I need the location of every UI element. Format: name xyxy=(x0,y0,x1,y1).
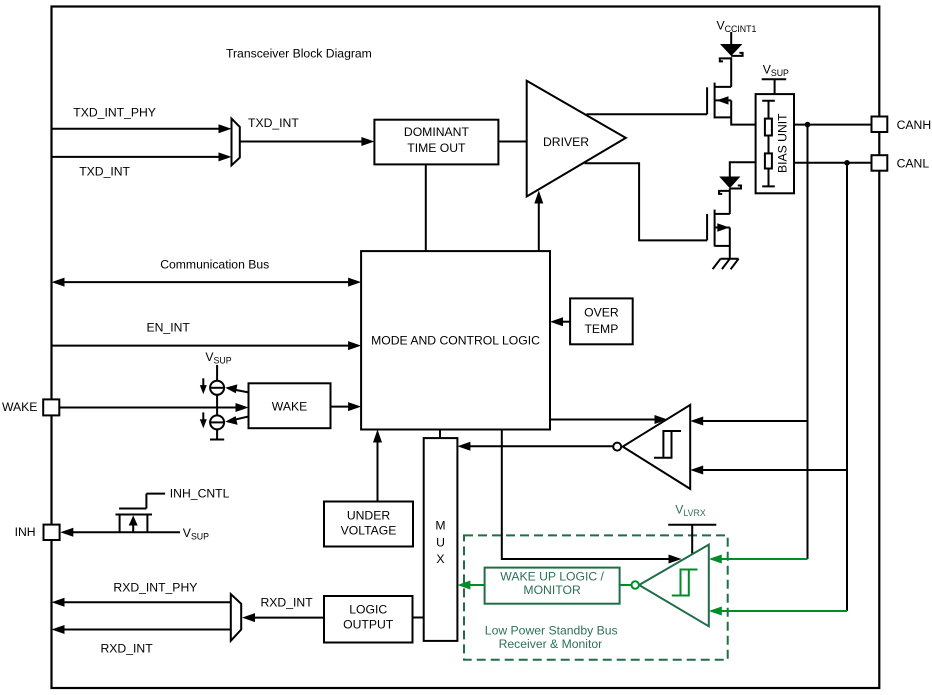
block UNDER VOLTAGE xyxy=(324,502,413,547)
svg-text:Receiver & Monitor: Receiver & Monitor xyxy=(499,637,603,651)
svg-text:RXD_INT: RXD_INT xyxy=(261,596,314,610)
svg-text:TXD_INT: TXD_INT xyxy=(79,165,130,179)
wire lower source to ground xyxy=(729,246,731,259)
svg-text:TXD_INT_PHY: TXD_INT_PHY xyxy=(73,106,156,120)
svg-text:MODE AND CONTROL LOGIC: MODE AND CONTROL LOGIC xyxy=(371,333,540,347)
svg-text:WAKE UP LOGIC /: WAKE UP LOGIC / xyxy=(500,570,604,584)
ground chassis xyxy=(713,259,739,270)
hysteresis symbol receiver xyxy=(654,431,681,458)
ground bar current source xyxy=(210,429,224,439)
node standby output bubble xyxy=(632,581,639,588)
svg-text:EN_INT: EN_INT xyxy=(147,321,191,335)
wire receiver input lower xyxy=(701,469,847,471)
diode D2 lower zener xyxy=(719,177,740,189)
diode D1 upper zener xyxy=(720,44,742,56)
wire mode logic to standby receiver enable xyxy=(502,430,670,560)
block MUX xyxy=(424,438,458,641)
block LOGIC OUTPUT xyxy=(324,596,413,643)
svg-text:Low Power Standby Bus: Low Power Standby Bus xyxy=(485,623,618,637)
arrow down I2 xyxy=(202,412,204,421)
svg-text:CANL: CANL xyxy=(897,157,930,171)
wire standby bubble to wake up block xyxy=(620,584,632,586)
block OVER TEMP xyxy=(570,298,633,344)
svg-text:MONITOR: MONITOR xyxy=(523,583,581,597)
hysteresis symbol standby xyxy=(672,570,698,596)
wire TXD_INT xyxy=(53,156,221,158)
svg-text:U: U xyxy=(436,536,445,550)
wire CANH rail to terminal xyxy=(794,124,872,126)
op-amp DRIVER xyxy=(527,81,626,197)
svg-text:OVER: OVER xyxy=(584,305,619,319)
transistor Q2 lower mosfet xyxy=(706,214,708,241)
wire upper source to CANH rail xyxy=(731,117,755,124)
wire wake up block to mux xyxy=(470,584,485,586)
svg-text:WAKE: WAKE xyxy=(272,400,307,414)
arrow wake block to I2 xyxy=(234,417,249,420)
wire logic output to mux xyxy=(413,617,424,619)
wire diode to upper mosfet drain xyxy=(730,57,732,87)
wire CANH sense vertical xyxy=(807,125,809,559)
svg-text:RXD_INT: RXD_INT xyxy=(101,642,154,656)
svg-text:UNDER: UNDER xyxy=(347,509,391,523)
current source I2 xyxy=(210,415,224,429)
svg-text:VOLTAGE: VOLTAGE xyxy=(341,524,397,538)
block DOMINANT TIME OUT xyxy=(374,120,498,165)
wire TXD_INT to dominant time out xyxy=(240,141,363,143)
wire driver enable from mode logic xyxy=(538,202,540,251)
svg-text:RXD_INT_PHY: RXD_INT_PHY xyxy=(113,581,197,595)
svg-text:TXD_INT: TXD_INT xyxy=(248,116,299,130)
wire standby input upper green xyxy=(720,558,808,560)
svg-text:CANH: CANH xyxy=(897,118,932,132)
terminal INH xyxy=(44,525,60,540)
wire VSUP tee to bias unit xyxy=(762,79,787,94)
arrow down I1 xyxy=(202,378,204,387)
svg-text:X: X xyxy=(436,552,444,566)
wire receiver input upper xyxy=(701,420,808,422)
op-amp receiver xyxy=(623,405,691,489)
wire EN_INT xyxy=(53,345,351,347)
wire dominant bottom to mode logic xyxy=(425,164,427,251)
wire mode logic to receiver enable xyxy=(550,419,656,421)
wire WAKE pin to wake block xyxy=(59,407,236,409)
node CANH junction xyxy=(805,122,811,128)
wire VCCINT1 down xyxy=(730,32,732,44)
wire diode to lower mosfet drain xyxy=(729,188,731,214)
wire VLVRX tee xyxy=(668,525,716,554)
current source I1 xyxy=(210,381,224,395)
svg-text:BIAS UNIT: BIAS UNIT xyxy=(776,113,790,173)
svg-text:TEMP: TEMP xyxy=(584,322,618,336)
transistor Q3 INH mosfet xyxy=(119,494,165,509)
svg-text:TIME OUT: TIME OUT xyxy=(407,141,466,155)
wire dominant to driver xyxy=(498,141,526,143)
svg-text:DRIVER: DRIVER xyxy=(543,135,589,149)
wire under voltage to mode logic xyxy=(377,441,379,502)
arrow wake block to I1 xyxy=(234,390,249,393)
box low power standby dashed xyxy=(464,535,728,659)
node CANL junction xyxy=(844,160,850,166)
resistor R2 bias xyxy=(765,153,772,168)
terminal CANH xyxy=(872,117,888,133)
wire driver lower output xyxy=(585,163,708,240)
wire CANL rail left of lower diode xyxy=(730,162,756,176)
wire standby input lower green xyxy=(720,610,847,612)
wire communication bus xyxy=(64,281,350,283)
resistor R1 bias xyxy=(765,119,772,136)
wire logic output to splitter xyxy=(254,617,324,619)
wire RXD_INT_PHY out xyxy=(64,601,231,603)
wire VSUP to current source xyxy=(216,365,218,381)
svg-text:LOGIC: LOGIC xyxy=(349,603,387,617)
wire RXD_INT out xyxy=(64,629,231,631)
wire CANL sense vertical xyxy=(846,163,848,611)
mux TXD combiner xyxy=(232,119,240,166)
svg-text:DOMINANT: DOMINANT xyxy=(404,125,470,139)
svg-text:OUTPUT: OUTPUT xyxy=(343,618,394,632)
wire TXD_INT_PHY xyxy=(53,128,221,130)
svg-text:Transceiver Block Diagram: Transceiver Block Diagram xyxy=(226,47,372,61)
wire driver upper output xyxy=(587,113,708,115)
wire CANL rail to terminal xyxy=(794,162,872,164)
wire over temp to mode logic xyxy=(563,321,570,323)
svg-text:WAKE: WAKE xyxy=(2,400,37,414)
wire mode logic to mux xyxy=(439,430,441,439)
terminal CANL xyxy=(872,155,888,171)
block MODE AND CONTROL LOGIC xyxy=(361,251,550,429)
block BIAS UNIT xyxy=(756,94,794,193)
block WAKE xyxy=(249,383,331,428)
transistor Q1 upper mosfet xyxy=(706,87,708,114)
svg-text:Communication Bus: Communication Bus xyxy=(160,258,269,272)
svg-text:INH: INH xyxy=(15,525,36,539)
block WAKE UP LOGIC / MONITOR xyxy=(485,568,620,604)
wire INH from mosfet xyxy=(72,531,180,533)
svg-text:M: M xyxy=(435,519,445,533)
wire receiver output to mux xyxy=(470,445,613,447)
terminal WAKE xyxy=(43,399,59,415)
op-amp standby receiver xyxy=(639,545,709,627)
wire wake to mode logic xyxy=(331,406,351,408)
mux RXD splitter xyxy=(231,594,241,641)
node receiver output bubble xyxy=(613,443,621,451)
wire between current sources xyxy=(216,395,218,416)
svg-text:INH_CNTL: INH_CNTL xyxy=(170,487,230,501)
